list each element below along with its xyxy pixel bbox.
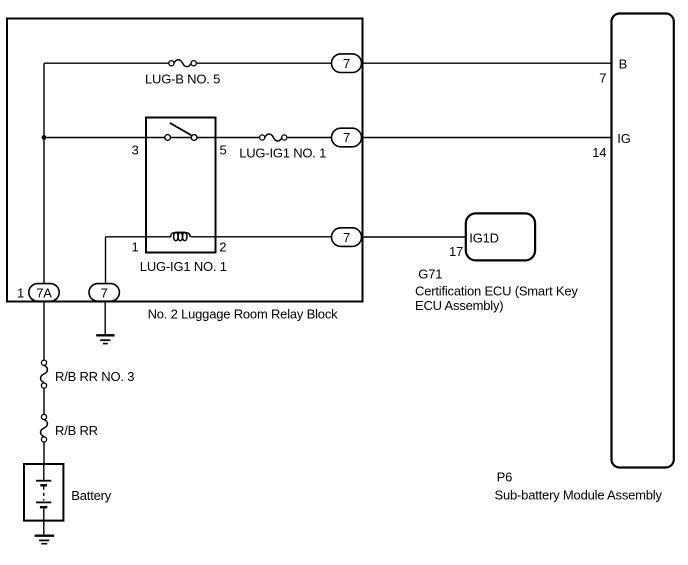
svg-text:7: 7: [599, 71, 606, 86]
connector 7 (IG line): [332, 128, 362, 147]
wire battery feed: [43, 301, 45, 464]
connector 7 (IG1D line): [332, 228, 362, 247]
relay LUG-IG1 NO. 1 box: [146, 118, 216, 253]
svg-text:ECU Assembly): ECU Assembly): [415, 298, 503, 313]
fuse LUG-IG1 NO. 1: [260, 134, 287, 141]
svg-text:G71: G71: [418, 267, 442, 282]
svg-text:14: 14: [592, 145, 606, 160]
fuse LUG-B NO. 5: [169, 60, 197, 67]
svg-text:R/B RR: R/B RR: [55, 423, 98, 438]
wire IG line: [44, 137, 332, 139]
svg-text:Sub-battery Module Assembly: Sub-battery Module Assembly: [495, 488, 663, 503]
connector 7A: [29, 284, 59, 302]
wire coil drop vertical: [105, 237, 107, 284]
connector 7 (ground): [89, 284, 119, 302]
svg-text:Certification ECU (Smart Key: Certification ECU (Smart Key: [415, 284, 578, 299]
svg-text:No. 2 Luggage Room Relay Block: No. 2 Luggage Room Relay Block: [148, 306, 339, 321]
wire B riser vertical: [43, 63, 45, 283]
svg-text:3: 3: [131, 143, 138, 158]
connector IG1D (G71): [466, 213, 535, 260]
fuse R/B RR NO. 3: [41, 360, 48, 388]
svg-text:1: 1: [131, 240, 138, 255]
ground (relay block): [96, 301, 114, 343]
relay switch blade: [170, 123, 192, 135]
relay coil: [171, 232, 191, 241]
battery: [24, 464, 63, 534]
svg-text:IG: IG: [617, 131, 630, 146]
svg-text:B: B: [619, 56, 627, 71]
svg-text:17: 17: [449, 244, 463, 259]
svg-text:1: 1: [17, 285, 24, 300]
ground (battery): [35, 536, 55, 544]
junction node: [42, 135, 47, 140]
svg-text:7: 7: [343, 130, 350, 145]
svg-text:IG1D: IG1D: [469, 230, 499, 245]
svg-text:LUG-IG1 NO. 1: LUG-IG1 NO. 1: [239, 145, 326, 160]
svg-text:LUG-IG1 NO. 1: LUG-IG1 NO. 1: [140, 259, 227, 274]
svg-text:2: 2: [219, 239, 226, 254]
fuse R/B RR: [41, 414, 48, 442]
connector 7 (B line): [332, 54, 362, 73]
sub-battery module assembly box (P6): [612, 14, 674, 468]
wire B to module: [362, 62, 612, 64]
relay switch contact left (pin 3): [165, 135, 171, 141]
wire coil line right: [191, 236, 332, 238]
svg-text:5: 5: [220, 142, 227, 157]
relay block box (No. 2 Luggage Room Relay Block outline): [7, 19, 363, 302]
wire IG to module: [362, 137, 612, 139]
svg-text:7: 7: [101, 285, 108, 300]
wire IG1D: [362, 236, 466, 238]
svg-text:7: 7: [343, 56, 350, 71]
svg-text:7A: 7A: [36, 285, 52, 300]
wire B feed horizontal: [44, 62, 332, 64]
wire coil line left: [106, 236, 171, 238]
svg-text:Battery: Battery: [71, 488, 111, 503]
svg-text:R/B RR NO. 3: R/B RR NO. 3: [55, 369, 134, 384]
svg-text:7: 7: [343, 230, 350, 245]
relay switch contact right (pin 5): [191, 135, 197, 141]
svg-text:LUG-B NO. 5: LUG-B NO. 5: [145, 71, 220, 86]
svg-text:P6: P6: [497, 470, 513, 485]
